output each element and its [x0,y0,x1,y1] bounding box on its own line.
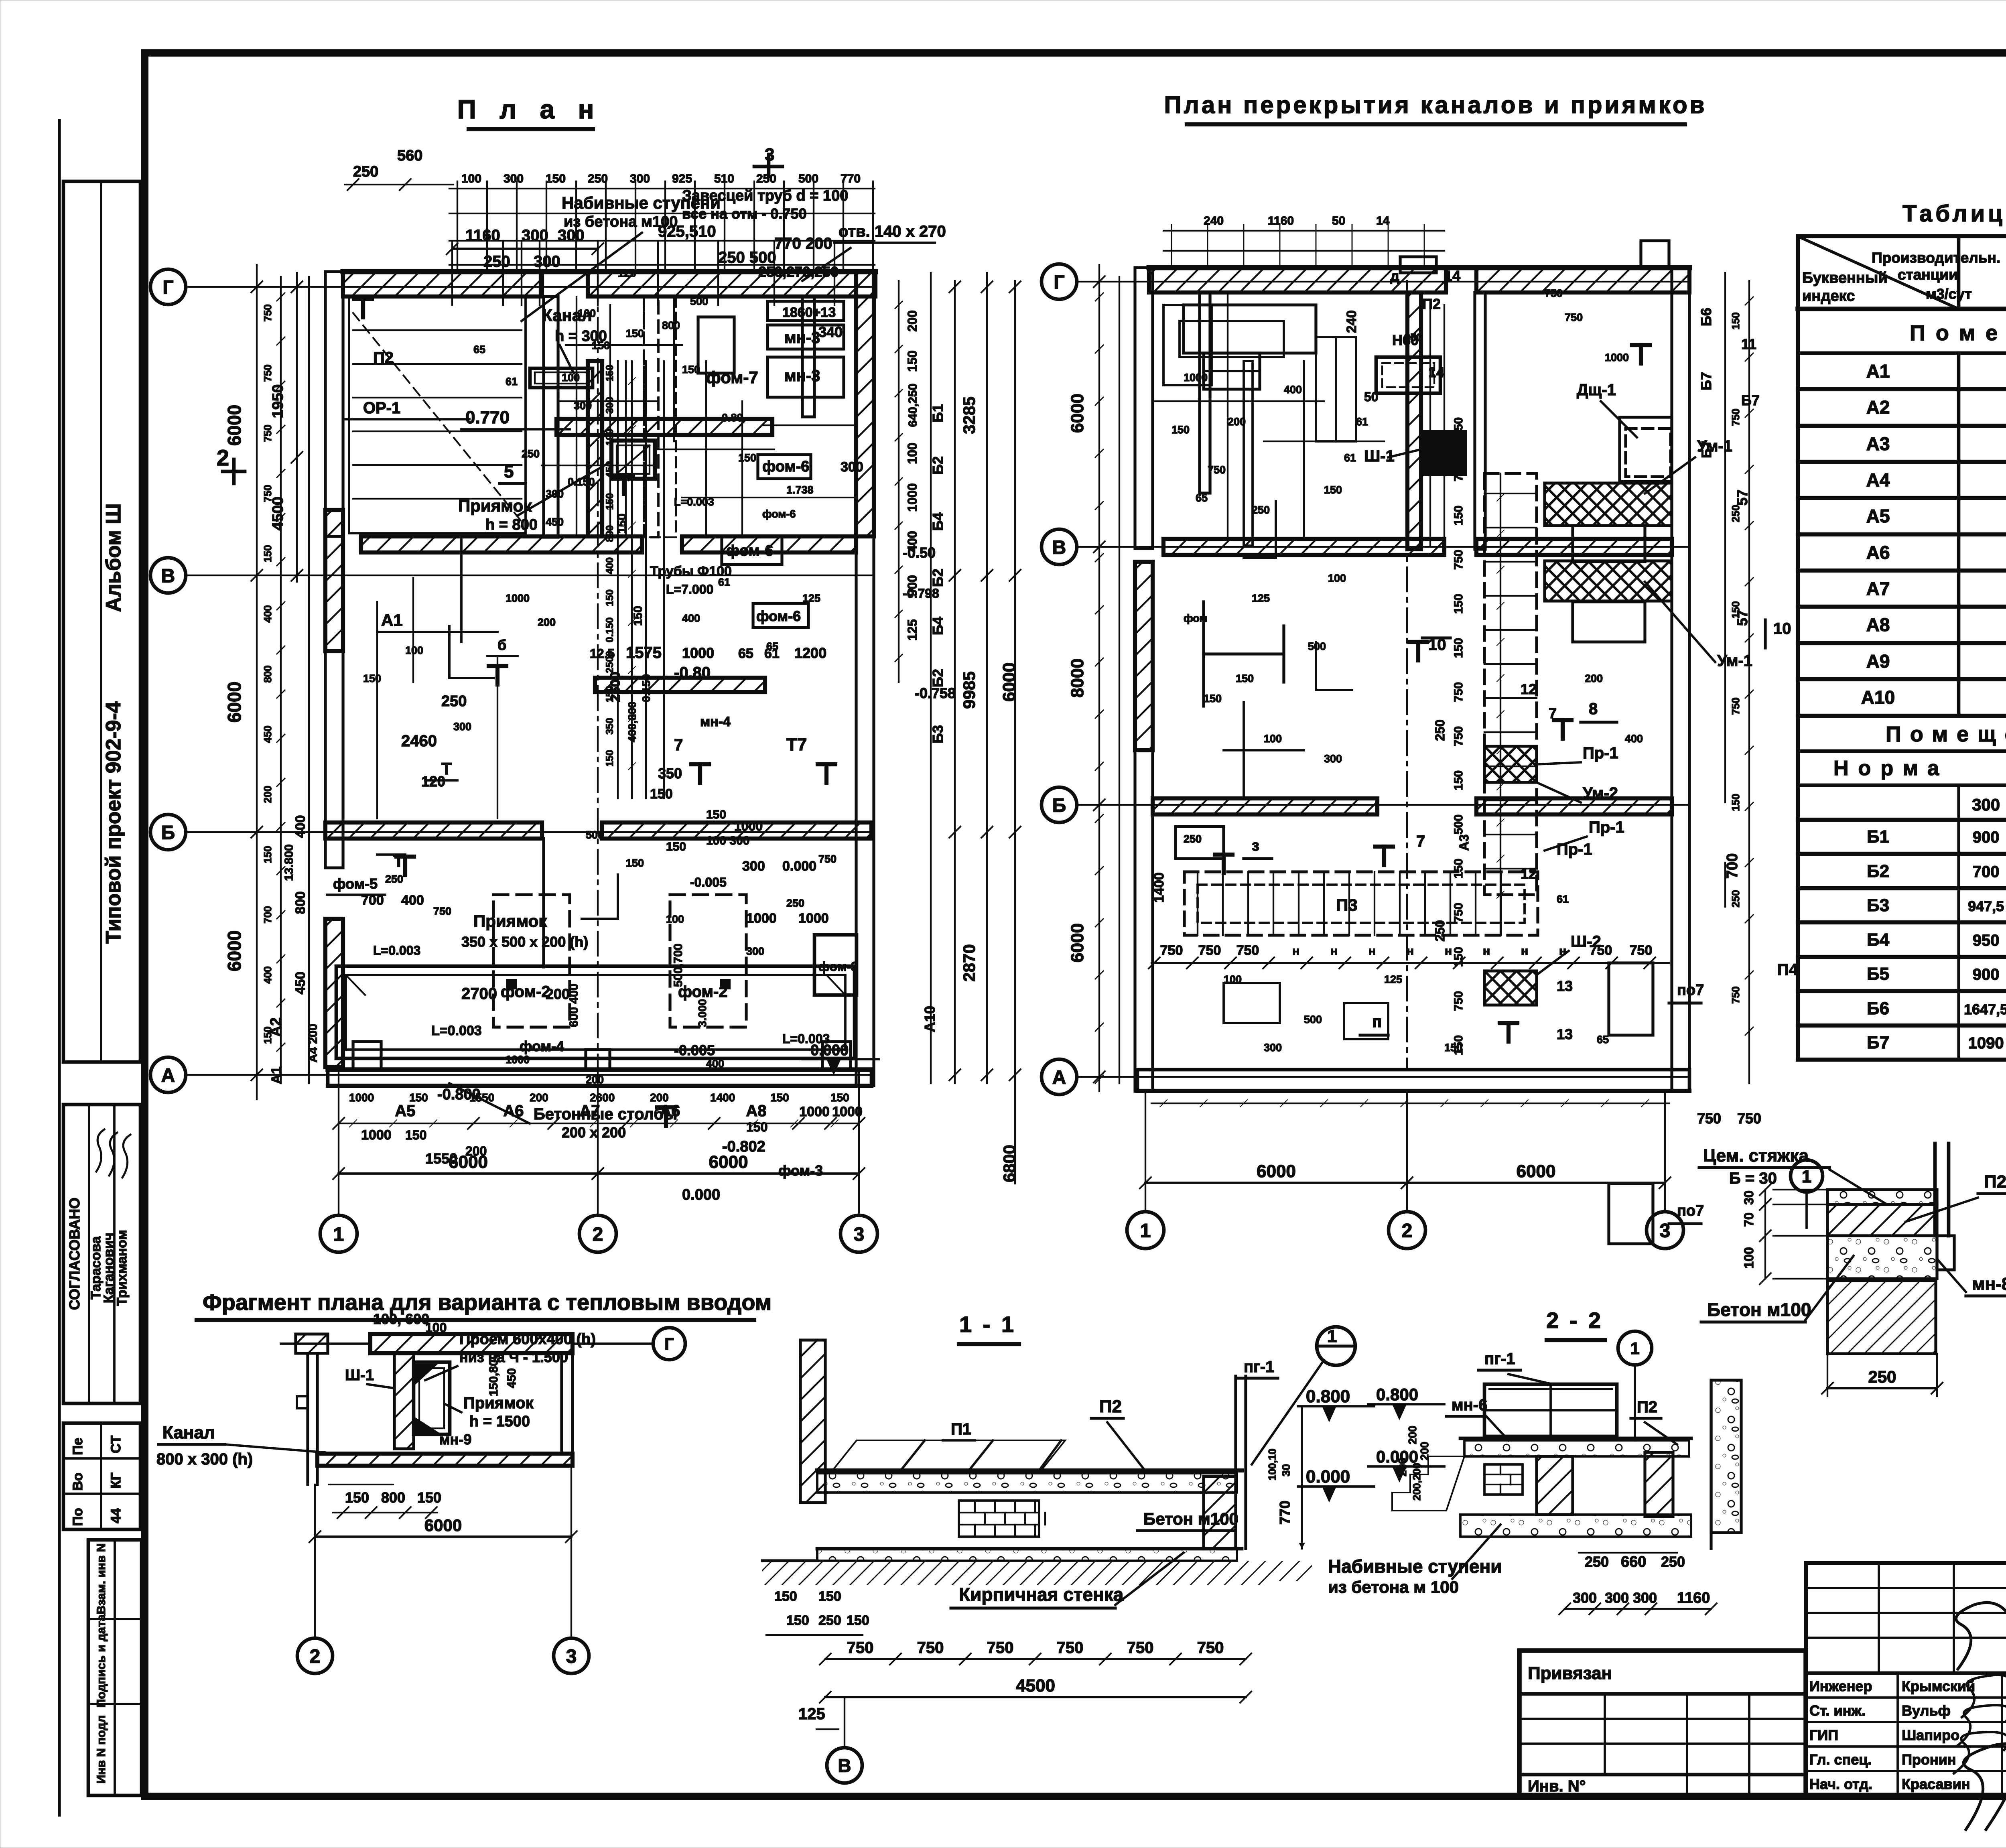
svg-text:750: 750 [262,424,274,442]
svg-text:5: 5 [504,462,514,481]
svg-text:100 300: 100 300 [706,834,749,847]
svg-text:1: 1 [1327,1326,1337,1346]
svg-text:1000: 1000 [746,911,777,926]
svg-text:0.150: 0.150 [604,617,615,643]
svg-text:750: 750 [987,1639,1014,1657]
svg-text:950: 950 [1973,932,2000,949]
svg-text:750: 750 [1208,464,1226,476]
svg-text:400: 400 [1625,733,1643,745]
svg-text:3285: 3285 [960,396,979,434]
svg-text:240: 240 [1204,214,1224,227]
svg-text:200 х 200: 200 х 200 [562,1124,626,1141]
svg-text:750: 750 [1630,943,1653,958]
svg-text:0.000: 0.000 [682,1186,720,1203]
svg-text:100: 100 [905,443,920,464]
svg-text:План перекрытия каналов и: План перекрытия каналов и приямков [1164,91,1707,118]
svg-text:100: 100 [425,1320,447,1335]
svg-text:Ш-1: Ш-1 [345,1367,374,1384]
svg-text:1200: 1200 [794,645,826,661]
svg-text:750: 750 [262,364,274,382]
svg-text:н: н [1521,944,1528,958]
svg-text:-0.758: -0.758 [915,685,956,701]
svg-text:750: 750 [1590,943,1612,958]
svg-text:Ум-2: Ум-2 [1583,784,1618,802]
svg-text:Б2: Б2 [930,569,946,587]
svg-text:Б4: Б4 [930,512,946,531]
svg-text:200: 200 [650,1091,669,1104]
svg-text:350: 350 [604,718,615,735]
svg-text:Приямок: Приямок [473,912,547,930]
svg-text:2: 2 [593,1224,603,1245]
svg-text:L=7.000: L=7.000 [666,582,713,597]
svg-text:560: 560 [397,147,422,164]
svg-text:250: 250 [1252,504,1270,516]
svg-text:150: 150 [1172,424,1190,436]
svg-text:250: 250 [756,172,776,185]
svg-text:70: 70 [1742,1212,1756,1227]
svg-text:Б2: Б2 [930,456,946,475]
svg-text:150: 150 [1452,770,1465,790]
svg-text:А10: А10 [1861,687,1895,708]
svg-text:7: 7 [1416,833,1425,850]
svg-text:Б6: Б6 [1867,999,1889,1018]
svg-text:6000: 6000 [449,1152,488,1172]
svg-text:125: 125 [798,1705,825,1723]
svg-text:700: 700 [1724,853,1741,879]
svg-text:150: 150 [626,857,644,869]
svg-text:Буквенный: Буквенный [1802,270,1888,286]
svg-text:1000: 1000 [506,592,530,604]
svg-text:100: 100 [578,307,596,319]
svg-text:250: 250 [1433,920,1447,941]
svg-text:7: 7 [674,736,683,754]
svg-text:1000: 1000 [1605,351,1629,364]
svg-text:1550: 1550 [469,1091,494,1104]
svg-text:400: 400 [682,612,700,624]
svg-text:1160: 1160 [1677,1590,1710,1606]
svg-text:250: 250 [1730,890,1742,907]
svg-text:750: 750 [1452,461,1465,481]
svg-text:150,800: 150,800 [487,1353,500,1396]
svg-text:150: 150 [1444,1042,1462,1054]
svg-text:Красавин: Красавин [1902,1776,1970,1792]
svg-text:200: 200 [1585,672,1603,684]
svg-text:Вульф: Вульф [1902,1702,1951,1719]
svg-text:12: 12 [1521,681,1537,697]
svg-text:В: В [161,565,175,587]
svg-text:2600: 2600 [590,1091,615,1104]
svg-text:57: 57 [1734,489,1750,506]
svg-text:Б: Б [161,822,175,843]
svg-text:Альбом Ш: Альбом Ш [102,504,125,612]
svg-text:150: 150 [786,1613,809,1628]
svg-text:Г: Г [664,1334,674,1353]
svg-text:500: 500 [690,295,708,307]
svg-text:750: 750 [1452,682,1465,702]
svg-text:300: 300 [574,400,592,412]
svg-text:А: А [161,1065,175,1086]
svg-text:150: 150 [1452,594,1465,614]
svg-text:250: 250 [385,873,403,885]
svg-text:А4: А4 [1866,469,1890,490]
svg-text:Во: Во [70,1472,85,1491]
svg-text:1.738: 1.738 [786,484,814,496]
svg-text:П2: П2 [1984,1172,2006,1192]
svg-text:150: 150 [262,545,274,562]
svg-text:100: 100 [461,172,481,185]
svg-text:400: 400 [706,1058,724,1070]
svg-text:м3/сут: м3/сут [1926,286,1972,302]
svg-text:500: 500 [1452,814,1465,835]
svg-text:150: 150 [1204,692,1222,705]
svg-text:9985: 9985 [960,671,979,709]
svg-text:150: 150 [770,1091,789,1104]
svg-text:300: 300 [1605,1590,1629,1606]
svg-text:П л а н: П л а н [457,94,602,124]
svg-text:Б: Б [1052,795,1066,816]
svg-text:3: 3 [854,1224,865,1245]
svg-text:1: 1 [1630,1339,1639,1358]
svg-text:640,250: 640,250 [906,384,920,427]
svg-text:150: 150 [738,452,756,464]
svg-text:1160: 1160 [465,227,500,244]
svg-text:П1: П1 [951,1420,971,1438]
svg-text:3: 3 [566,1646,577,1667]
svg-text:125: 125 [1384,973,1402,985]
svg-text:150: 150 [546,172,566,185]
svg-text:14: 14 [1376,214,1390,227]
svg-text:65: 65 [1597,1034,1609,1046]
svg-text:150: 150 [604,589,615,606]
svg-text:Пр-1: Пр-1 [1557,841,1592,858]
svg-text:фом: фом [1184,612,1207,624]
svg-text:Гл. спец.: Гл. спец. [1809,1751,1872,1768]
svg-text:800: 800 [381,1489,405,1506]
svg-text:300: 300 [453,721,471,733]
svg-text:Завесцей труб d = 100: Завесцей труб d = 100 [682,187,848,204]
svg-text:-0.005: -0.005 [674,1042,715,1058]
svg-text:Б4: Б4 [930,617,946,635]
svg-text:-0.80: -0.80 [718,412,743,424]
svg-text:з: з [1252,837,1259,854]
svg-text:150: 150 [604,686,615,703]
svg-text:Производительн.: Производительн. [1872,250,2000,266]
svg-text:0.770: 0.770 [465,408,510,427]
svg-text:150: 150 [1324,484,1342,496]
svg-text:750: 750 [1737,1110,1761,1127]
svg-text:500: 500 [798,172,818,185]
svg-text:н: н [1483,944,1490,958]
svg-text:П2: П2 [1637,1398,1657,1416]
svg-text:150: 150 [262,1026,274,1044]
svg-text:н: н [1445,944,1452,958]
svg-text:Пронин: Пронин [1902,1751,1956,1768]
svg-text:6000: 6000 [424,1516,462,1535]
svg-text:400: 400 [293,815,308,838]
svg-text:Б3: Б3 [1867,896,1889,915]
svg-text:Г: Г [1054,272,1064,293]
svg-text:6000: 6000 [1068,923,1087,963]
svg-text:1000: 1000 [682,645,714,661]
svg-text:100: 100 [1328,572,1346,584]
svg-text:1000: 1000 [361,1127,392,1143]
svg-text:300: 300 [1264,1042,1282,1054]
svg-text:Б7: Б7 [1698,372,1714,390]
svg-text:б: б [497,637,506,653]
svg-text:300: 300 [522,227,548,244]
svg-text:150: 150 [604,750,615,767]
svg-text:1: 1 [333,1224,344,1245]
svg-text:150: 150 [746,1120,767,1134]
svg-text:100: 100 [666,913,684,925]
svg-text:6000: 6000 [1517,1162,1556,1181]
svg-text:150: 150 [650,786,673,802]
svg-text:300: 300 [1972,795,2000,814]
svg-text:250: 250 [818,1613,841,1628]
svg-text:6000: 6000 [224,405,245,446]
svg-text:Т7: Т7 [786,735,807,754]
svg-text:250: 250 [1661,1554,1685,1570]
svg-text:61: 61 [1344,452,1356,464]
svg-text:100: 100 [1742,1247,1756,1268]
svg-text:мн-4: мн-4 [700,714,731,729]
svg-text:Т: Т [441,759,452,778]
svg-text:-0.50: -0.50 [903,544,936,561]
svg-text:2500: 2500 [604,651,615,673]
svg-text:Пр-1: Пр-1 [1583,744,1618,762]
svg-text:750: 750 [1730,408,1742,426]
svg-text:Подпись и дата: Подпись и дата [95,1614,108,1708]
svg-text:мн-9: мн-9 [439,1431,471,1448]
svg-text:400: 400 [401,893,424,908]
svg-text:250: 250 [588,172,608,185]
svg-text:1000: 1000 [832,1104,863,1119]
svg-text:0.150: 0.150 [568,476,595,488]
svg-text:500: 500 [1304,1013,1322,1026]
svg-text:Набивные ступени: Набивные ступени [1328,1556,1502,1577]
svg-text:0.800: 0.800 [1306,1387,1350,1406]
svg-text:750: 750 [1197,1639,1224,1657]
svg-text:Дщ-1: Дщ-1 [1577,381,1616,399]
svg-text:6000: 6000 [224,930,245,971]
svg-text:А5: А5 [1866,506,1890,526]
svg-text:фом-4: фом-4 [520,1038,564,1054]
svg-text:44: 44 [108,1508,124,1523]
svg-text:Пр-1: Пр-1 [1589,818,1624,836]
svg-text:300: 300 [1324,753,1342,765]
svg-text:Помещение: Помещение [1910,321,2006,345]
svg-text:150: 150 [631,606,645,626]
svg-text:Б1: Б1 [930,404,946,422]
svg-text:150: 150 [1452,506,1465,526]
svg-text:-0.798: -0.798 [903,586,939,601]
svg-text:Норма: Норма [1833,757,1949,780]
svg-text:фом-6: фом-6 [756,608,801,624]
svg-text:450: 450 [262,725,274,743]
svg-text:Бетон м100: Бетон м100 [1707,1299,1811,1320]
svg-text:Б7: Б7 [1699,441,1714,458]
svg-text:отв. 140 х 270: отв. 140 х 270 [839,223,946,240]
svg-text:мн-3: мн-3 [784,329,820,347]
svg-text:фом-6: фом-6 [762,458,809,475]
svg-text:Фрагмент плана для вариа: Фрагмент плана для варианта с тепловым в… [203,1290,772,1315]
svg-text:станции: станции [1898,266,1958,283]
svg-text:65: 65 [766,640,778,652]
svg-text:100: 100 [405,644,423,656]
svg-text:КГ: КГ [108,1472,124,1489]
svg-text:А6: А6 [503,1102,524,1120]
svg-text:100,10: 100,10 [1266,1448,1278,1480]
svg-text:Б7: Б7 [1741,392,1760,408]
svg-text:1000: 1000 [349,1091,374,1104]
svg-text:1 - 1: 1 - 1 [959,1312,1016,1337]
svg-text:400: 400 [1284,384,1302,396]
svg-text:750: 750 [818,853,837,865]
svg-text:Шапиро: Шапиро [1902,1727,1959,1743]
svg-text:350: 350 [658,765,682,782]
svg-text:h = 800: h = 800 [485,516,538,533]
svg-text:750: 750 [433,905,451,917]
svg-text:Инв. N°: Инв. N° [1528,1777,1586,1795]
svg-text:Кирпичная стенка: Кирпичная стенка [959,1584,1124,1605]
svg-text:А3: А3 [1866,433,1890,454]
svg-text:150: 150 [1452,638,1465,658]
svg-text:750: 750 [1198,943,1221,958]
svg-text:Канал: Канал [162,1423,215,1442]
svg-text:150: 150 [409,1091,428,1104]
svg-text:1000: 1000 [1184,372,1208,384]
svg-text:65: 65 [738,646,753,661]
svg-text:150: 150 [363,672,381,684]
svg-text:П3: П3 [1336,896,1358,914]
svg-text:450: 450 [293,972,308,995]
svg-text:200: 200 [1406,1426,1419,1444]
svg-text:150: 150 [666,840,686,853]
svg-text:Б3: Б3 [930,725,946,743]
svg-text:750: 750 [262,485,274,502]
svg-text:8: 8 [1589,700,1598,718]
svg-text:750: 750 [1236,943,1259,958]
svg-text:250: 250 [1868,1367,1896,1386]
svg-text:300: 300 [504,172,524,185]
svg-text:В: В [838,1755,851,1776]
svg-text:фом-6: фом-6 [762,508,796,520]
svg-text:пг-1: пг-1 [1244,1358,1274,1376]
svg-text:L=0.003: L=0.003 [782,1032,830,1046]
svg-text:510: 510 [714,172,734,185]
svg-text:П2: П2 [1422,296,1441,312]
svg-text:750: 750 [1452,903,1465,923]
svg-text:250: 250 [353,163,378,180]
svg-text:А2: А2 [1866,397,1890,418]
svg-text:240: 240 [1344,310,1359,333]
svg-text:Ум-1: Ум-1 [1717,652,1752,670]
svg-text:Привязан: Привязан [1528,1663,1612,1683]
svg-text:L=0.003: L=0.003 [674,496,714,508]
svg-text:800: 800 [293,892,308,914]
svg-text:450: 450 [546,516,564,528]
svg-text:750: 750 [1057,1639,1084,1657]
svg-text:50: 50 [1364,390,1379,404]
svg-text:Ст. инж.: Ст. инж. [1809,1702,1866,1719]
svg-text:А6: А6 [660,1102,680,1120]
svg-text:800 х 300 (h): 800 х 300 (h) [156,1450,253,1468]
svg-text:770: 770 [841,172,861,185]
svg-text:0.800: 0.800 [1376,1385,1418,1404]
svg-text:100, 600: 100, 600 [373,1311,429,1327]
svg-text:мн-8: мн-8 [1972,1274,2006,1294]
svg-text:-0.005: -0.005 [690,875,727,889]
svg-text:1090: 1090 [1968,1034,2004,1052]
svg-text:Нач. отд.: Нач. отд. [1809,1776,1872,1792]
svg-text:Приямок: Приямок [463,1394,534,1412]
svg-text:10: 10 [1773,620,1791,638]
svg-text:фом-7: фом-7 [706,368,758,387]
svg-text:125: 125 [905,619,920,640]
svg-text:1400: 1400 [1151,872,1167,903]
svg-text:750: 750 [1545,287,1563,299]
svg-text:300: 300 [742,859,765,874]
svg-text:250: 250 [1585,1554,1609,1570]
svg-text:1400: 1400 [710,1091,735,1104]
svg-text:750: 750 [1730,697,1742,715]
svg-text:125: 125 [802,592,820,604]
svg-text:Б7: Б7 [1867,1033,1889,1052]
svg-text:А9: А9 [1866,651,1890,672]
svg-text:L=0.003: L=0.003 [431,1023,482,1038]
svg-text:750: 750 [1730,986,1742,1003]
svg-text:250: 250 [522,448,540,460]
svg-text:н: н [1559,944,1566,958]
svg-text:П2: П2 [1099,1397,1122,1416]
svg-text:2 - 2: 2 - 2 [1546,1308,1603,1333]
svg-text:2: 2 [217,445,229,470]
svg-text:низ на Ч - 1.500: низ на Ч - 1.500 [459,1349,568,1365]
svg-text:Таблица геометрических раз: Таблица геометрических размеров [1902,201,2006,227]
svg-text:400: 400 [262,966,274,983]
svg-text:660: 660 [1621,1554,1646,1570]
svg-text:947,5: 947,5 [1968,898,2004,914]
svg-text:150: 150 [1730,312,1742,329]
svg-text:150: 150 [1452,947,1465,967]
svg-text:150: 150 [626,327,644,339]
svg-text:6000: 6000 [1068,394,1087,433]
svg-text:150: 150 [345,1489,369,1506]
svg-text:из бетона м100: из бетона м100 [564,213,678,230]
svg-text:750: 750 [1452,726,1465,746]
svg-text:250: 250 [786,897,804,909]
svg-text:п: п [1372,1013,1382,1031]
svg-text:750: 750 [1127,1639,1154,1657]
svg-text:770: 770 [1277,1501,1293,1525]
svg-text:125: 125 [1252,592,1270,604]
svg-text:13.800: 13.800 [282,844,296,881]
svg-text:1000: 1000 [506,1054,530,1066]
svg-text:61: 61 [506,376,518,388]
svg-text:300: 300 [546,488,564,500]
svg-text:А3: А3 [1457,835,1471,851]
svg-text:900: 900 [1973,966,2000,983]
svg-text:Типовой проект 902-9-4: Типовой проект 902-9-4 [102,701,125,943]
svg-text:900: 900 [1973,829,2000,846]
svg-text:61: 61 [718,576,730,588]
svg-text:6000: 6000 [224,682,245,723]
svg-text:150: 150 [847,1613,869,1628]
svg-text:Б2: Б2 [1867,861,1889,881]
svg-text:6000: 6000 [709,1152,748,1172]
svg-text:13: 13 [1557,978,1573,994]
svg-text:750: 750 [1452,550,1465,570]
